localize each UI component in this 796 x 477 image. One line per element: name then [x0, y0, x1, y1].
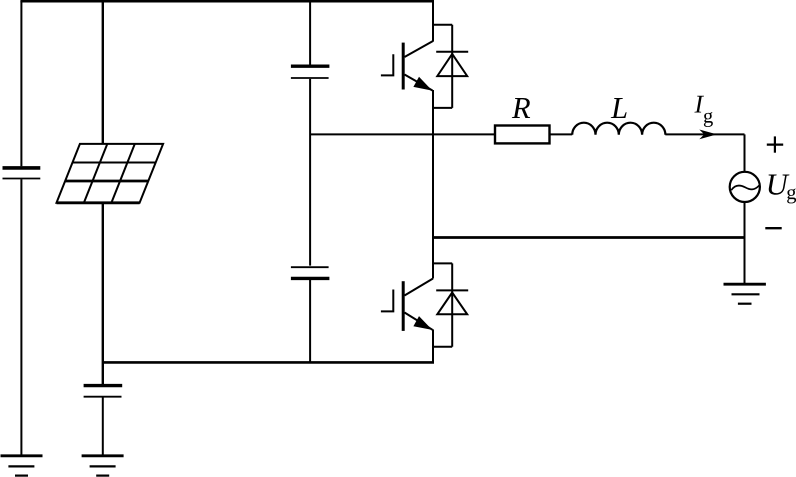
svg-text:L: L: [610, 91, 628, 125]
svg-text:g: g: [703, 105, 713, 127]
svg-text:g: g: [786, 182, 796, 204]
svg-text:R: R: [511, 91, 531, 125]
